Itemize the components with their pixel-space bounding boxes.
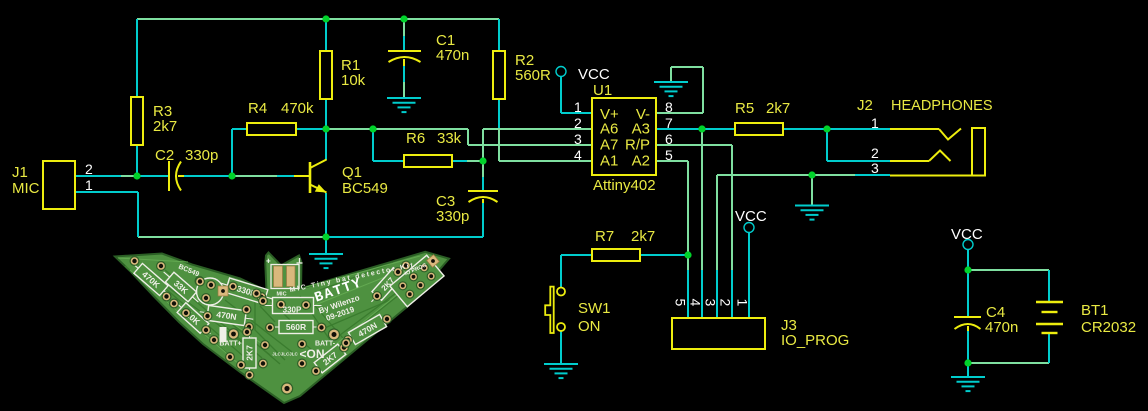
svg-text:5: 5 [673,299,689,307]
ground SW1 [544,364,578,378]
node emitter-gnd [322,233,329,240]
svg-text:BATT+: BATT+ [219,341,241,348]
svg-text:C2: C2 [155,147,174,164]
svg-text:JLCJLCJLC: JLCJLCJLC [272,352,298,357]
wire to U1 pin2 [483,128,592,130]
svg-text:2k7: 2k7 [153,118,177,135]
svg-text:1: 1 [574,99,582,115]
svg-text:2: 2 [574,115,582,131]
svg-text:2: 2 [718,299,734,307]
capacitor C3 [468,191,498,203]
wire R3 bottom to node [136,145,138,176]
node rail-C1 [400,15,407,22]
power VCC J3 pin1 [735,208,767,233]
wire VCC to U1 pin1 [560,76,562,113]
node mic-R3 [133,172,140,179]
ground J2 [795,206,829,220]
wire J3 pin3 ground net [716,270,718,318]
PCB photo: BATTY bat-shaped board [115,252,449,403]
resistor R6 [404,155,452,167]
wire R4 left lead [232,128,247,130]
svg-text:MIC: MIC [276,291,286,297]
node rail-R1 [322,15,329,22]
capacitor C2 [169,161,184,191]
wire collector rail [326,128,373,130]
svg-text:10k: 10k [341,72,366,89]
svg-text:A7: A7 [600,137,618,154]
wire R7 right lead [640,254,688,256]
wire to U1 pin3 [468,144,592,146]
svg-text:Q1: Q1 [342,164,362,181]
svg-text:Attiny402: Attiny402 [593,177,656,194]
connector J3 IO_PROG [672,318,765,349]
svg-text:4: 4 [688,299,704,307]
wire Q1 emitter down [325,193,327,237]
wire node to BT1 plus [968,269,1049,271]
wire pin7 net to J3 pin4 [701,129,703,270]
svg-text:330p: 330p [436,208,469,225]
svg-text:5: 5 [665,147,673,163]
wire rail to R2 top [498,19,500,51]
wire U1 pin7 to R5 [656,128,702,130]
node pin7-J3 [698,125,705,132]
wire C4 bottom to ground node [967,331,969,363]
node R7-J3 [684,251,691,258]
svg-text:A6: A6 [600,121,618,138]
svg-text:2: 2 [85,161,93,177]
wire U1 pin6 to J3 pin2 [656,144,732,146]
ground Q1 emitter [309,254,343,268]
PCB silkscreen boxes [128,258,174,301]
transistor Q1 [294,160,327,194]
svg-text:J2: J2 [857,97,873,114]
wire node to C2 [137,175,169,177]
svg-text:2K7: 2K7 [245,345,255,361]
resistor R5 [735,123,783,135]
PCB pads [130,257,139,266]
power VCC battery [951,226,983,250]
svg-text:R6: R6 [406,130,425,147]
node R6-C3-pin2 [479,157,486,164]
wire J2 pin1 node to pin2 [826,129,828,161]
svg-text:J1: J1 [12,164,28,181]
svg-text:6: 6 [665,131,673,147]
svg-text:470k: 470k [281,100,314,117]
svg-text:HEADPHONES: HEADPHONES [891,98,993,114]
ground U1 pin8 [654,82,688,96]
wire node to C4 top [967,270,969,317]
resistor R4 [247,123,296,135]
svg-text:470n: 470n [985,319,1018,336]
svg-text:<ON: <ON [299,347,324,361]
svg-text:33k: 33k [437,130,462,147]
wire C2 to base node [184,175,232,177]
svg-text:IO_PROG: IO_PROG [781,332,849,349]
svg-text:A3: A3 [632,121,650,138]
wire U1 pin5 [656,160,688,162]
wire C1 to ground [403,66,405,82]
wire Q1 collector up [325,129,327,160]
wire node down to ground [811,175,813,205]
wire rail to C1 [403,19,405,36]
wire node to J3 pin5 [687,255,689,270]
node base-R4 [228,172,235,179]
svg-text:3: 3 [574,131,582,147]
wire pin2 drop to C3 node [482,129,484,161]
wire R5 to J2 pin1 [783,128,827,130]
svg-text:330p: 330p [185,147,218,164]
wire R2 bottom down [498,99,500,129]
svg-text:MIC: MIC [12,180,40,197]
svg-text:R7: R7 [595,228,614,245]
battery BT1 CR2032 [1036,302,1063,333]
node VCC-C4-BT1 [964,266,971,273]
wire rail to R6 left [372,129,374,161]
wire base node to Q1 [232,175,277,177]
svg-text:A2: A2 [632,153,650,170]
wire step down to pin3 [467,129,469,145]
node rail-R6 [369,125,376,132]
capacitor C4 [954,317,981,331]
svg-text:560R: 560R [515,67,551,84]
svg-text:+: + [266,257,271,266]
wire ground node to J2 pin3 [812,174,855,176]
wire R2 to U1 pin4 [499,160,592,162]
wire J1 pin2 to node [75,175,121,177]
svg-text:2: 2 [871,145,879,161]
svg-text:R4: R4 [248,100,267,117]
svg-text:ON: ON [578,318,601,335]
capacitor C1 [388,51,421,66]
wire rail to R3 top [136,19,138,97]
wire top supply rail [137,18,499,20]
node gnd-J2 [808,171,815,178]
svg-text:560R: 560R [286,322,306,332]
wire R6 right [452,160,467,162]
wire BT1 minus to ground node [968,362,1049,364]
wire R4 right lead [296,128,326,130]
resistor R7 [592,249,640,261]
wire VCC to C4 node [967,250,969,270]
svg-text:R5: R5 [735,100,754,117]
wire node to C3 top [482,161,484,177]
J2 pin numbers [871,115,879,176]
svg-text:4: 4 [574,147,582,163]
switch SW1 [545,287,565,333]
svg-text:VCC: VCC [735,208,767,225]
svg-text:2k7: 2k7 [766,100,790,117]
svg-text:1: 1 [735,299,751,307]
wire emitter node to J1 pin1 [138,236,326,238]
power VCC U1 pin1 [556,66,610,83]
svg-text:BC549: BC549 [342,180,388,197]
wire VCC to J3 pin1 [748,232,750,318]
op-amp U1 Attiny402 body [592,98,656,175]
ground C1 [387,98,421,112]
J3 pin numbers [673,299,751,307]
svg-text:R/P: R/P [625,137,650,154]
wire R1 bottom to node [325,99,327,129]
wire SW1 bottom to ground [560,331,562,364]
svg-text:U1: U1 [593,82,612,99]
connector J2 headphone jack [890,128,985,176]
U1 pin names [600,106,650,170]
wire C3 bottom down [482,203,484,237]
connector J1 MIC [43,161,75,209]
svg-text:8: 8 [665,99,673,115]
svg-text:SW1: SW1 [578,300,611,317]
svg-text:2k7: 2k7 [631,228,655,245]
node collector [322,125,329,132]
wire rail to R1 top [325,19,327,51]
U1 pin numbers [574,99,673,163]
wire pin5 to R7 node [687,161,689,255]
svg-text:VCC: VCC [578,66,610,83]
svg-text:CR2032: CR2032 [1081,319,1136,336]
PCB transistor footprint [197,278,224,305]
wire R7 left lead [561,254,592,256]
resistor R1 [320,51,332,99]
svg-text:470n: 470n [436,47,469,64]
svg-text:BT1: BT1 [1081,302,1109,319]
svg-text:A1: A1 [600,153,618,170]
resistor R2 [493,51,505,99]
ground C4 [951,377,985,391]
node C4-BT1-gnd [964,359,971,366]
svg-text:7: 7 [665,115,673,131]
svg-text:1: 1 [871,115,879,131]
svg-text:3: 3 [703,299,719,307]
wire C3 to emitter node [326,236,483,238]
svg-text:1: 1 [85,177,93,193]
wire emitter node to ground [325,237,327,254]
node J2 pin1-2 [823,125,830,132]
PCB MIC pads [271,265,299,289]
svg-text:330P: 330P [283,305,302,314]
wire U1 pin8 ground loop [656,112,703,114]
wire J1 pin1 [75,191,138,193]
resistor R3 [131,97,143,145]
wire to SW1 top [560,255,562,287]
wire R4 to base node [231,129,233,176]
svg-text:VCC: VCC [951,226,983,243]
svg-text:3: 3 [871,160,879,176]
